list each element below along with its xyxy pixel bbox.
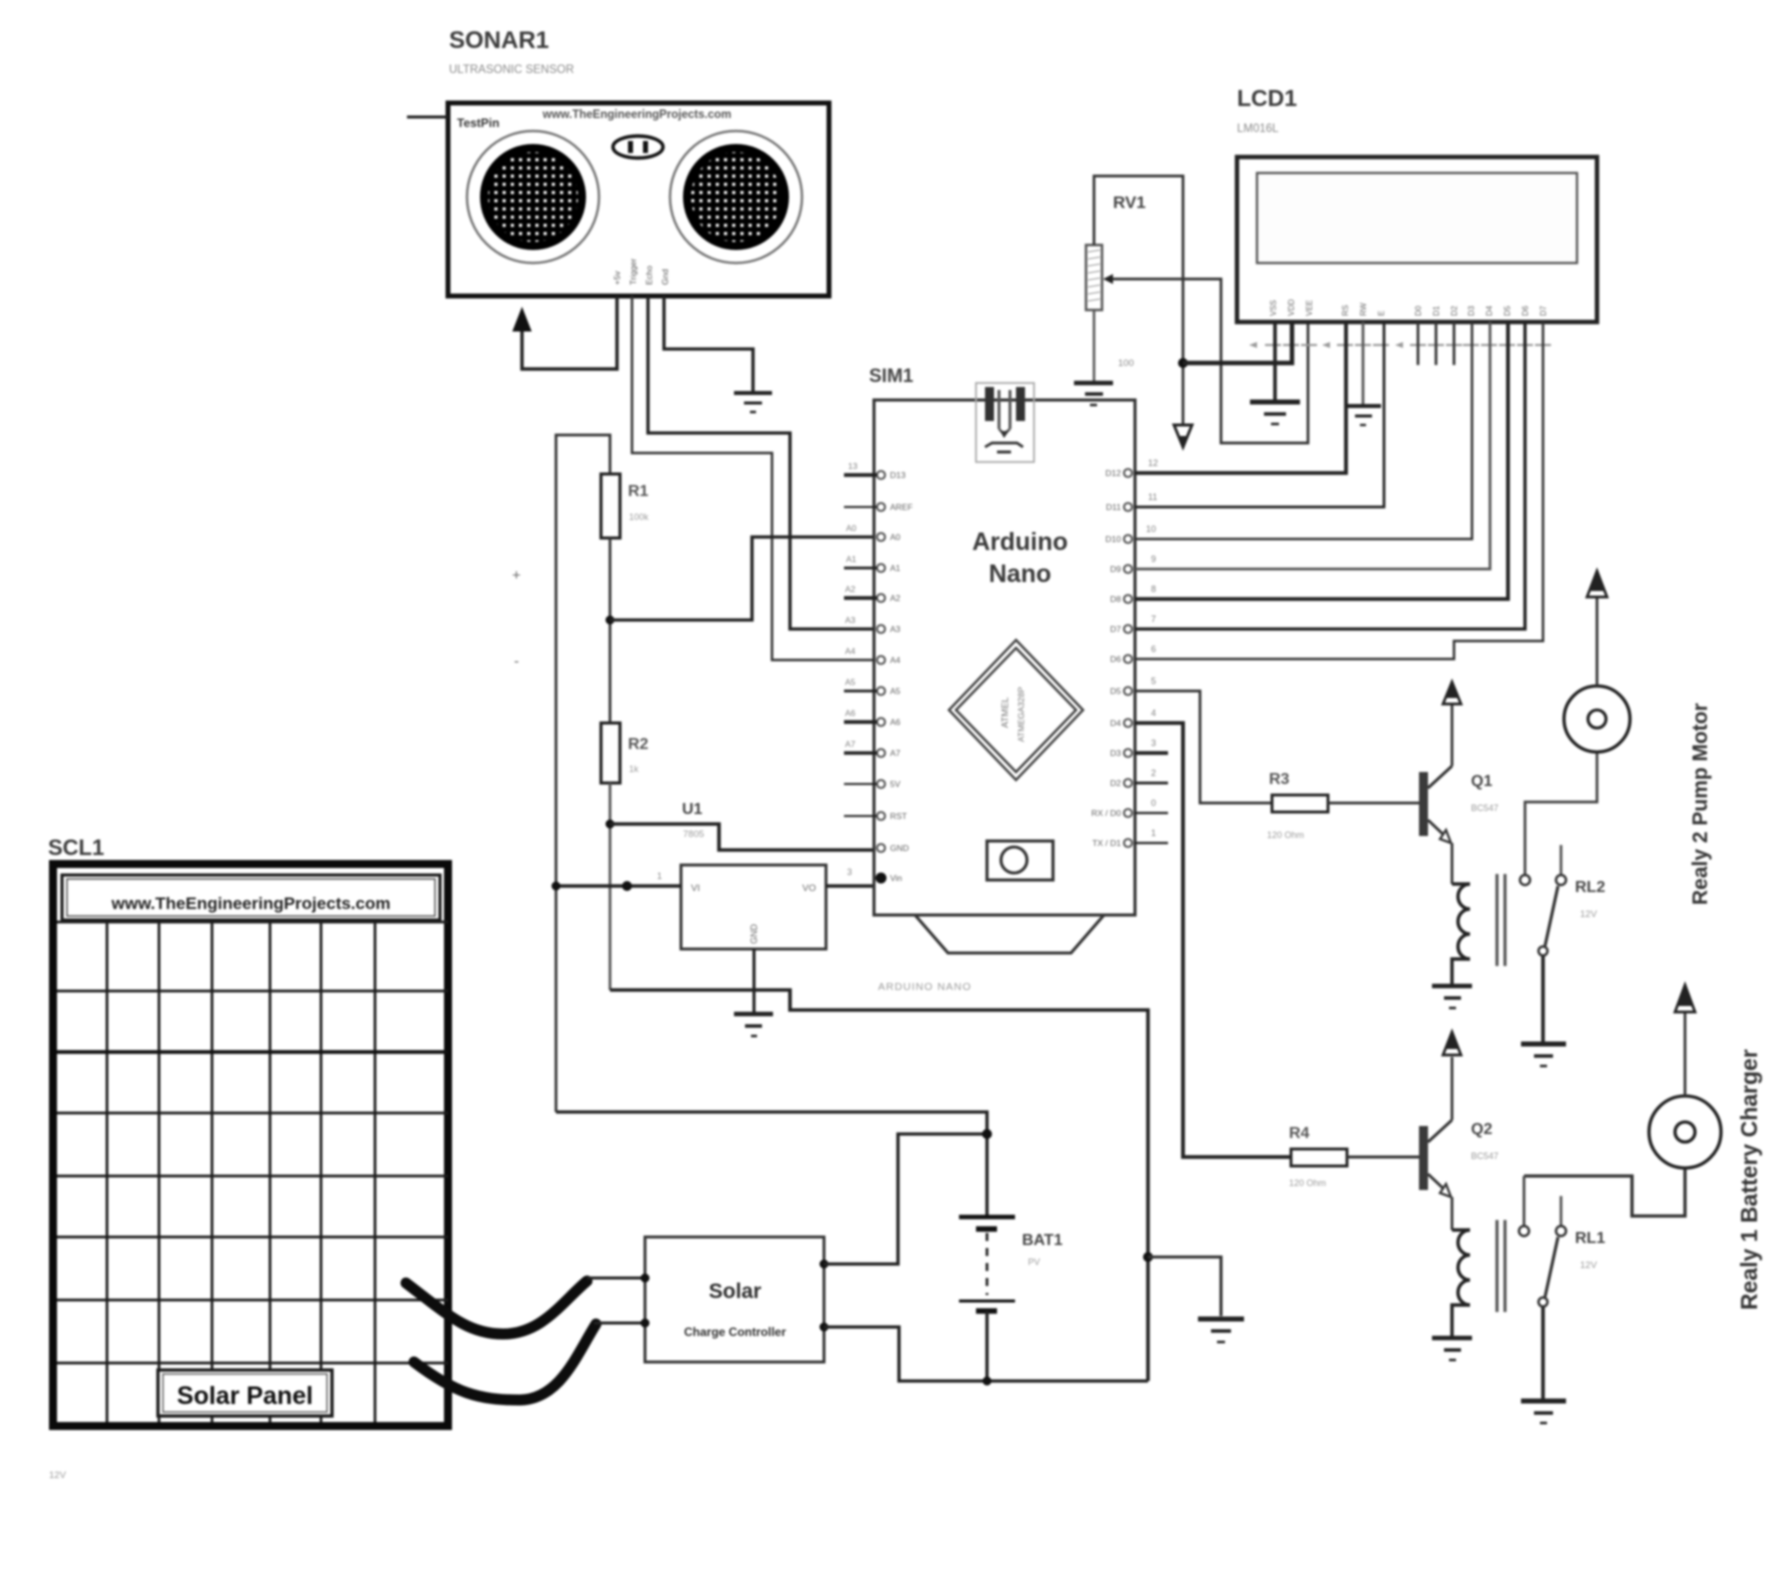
wire arduino D9 to LCD D4: [1135, 322, 1490, 569]
svg-text:A1: A1: [846, 554, 857, 564]
svg-text:8: 8: [1151, 584, 1156, 594]
node R2 bottom junction: [606, 820, 615, 829]
svg-text:Charge Controller: Charge Controller: [684, 1325, 786, 1339]
svg-text:BAT1: BAT1: [1022, 1232, 1063, 1249]
wire sonar Trigger to Arduino A4: [632, 296, 875, 660]
wire LCD D2 stub: [1453, 322, 1456, 365]
solar charge controller: [641, 1237, 829, 1362]
arduino right pin circles: [1124, 469, 1132, 847]
svg-text:Vin: Vin: [890, 873, 902, 883]
wire LCD D0 stub: [1417, 322, 1420, 365]
relay RL2 coil: [1452, 884, 1470, 984]
svg-text:Arduino: Arduino: [972, 528, 1068, 556]
wire junction to Arduino GND: [610, 824, 875, 850]
svg-text:1: 1: [657, 871, 662, 881]
relay RL1 coil: [1452, 1230, 1470, 1336]
svg-text:Gnd: Gnd: [660, 269, 670, 285]
wire GND net to bottom rail: [610, 990, 1148, 1381]
svg-text:U1: U1: [682, 801, 703, 818]
svg-text:D6: D6: [1521, 305, 1530, 316]
svg-text:A1: A1: [890, 563, 901, 573]
atmel atmega328p chip diamond: [949, 640, 1083, 780]
svg-text:D7: D7: [1110, 624, 1121, 634]
svg-text:Realy 2 Pump Motor: Realy 2 Pump Motor: [1689, 703, 1712, 905]
svg-text:D11: D11: [1106, 502, 1121, 512]
svg-text:D7: D7: [1539, 305, 1548, 316]
svg-text:A0: A0: [890, 532, 901, 542]
svg-text:Solar: Solar: [709, 1280, 762, 1303]
svg-text:2: 2: [1151, 768, 1156, 778]
svg-text:RV1: RV1: [1113, 193, 1146, 212]
wire arduino D5 to R3: [1135, 691, 1272, 803]
svg-text:3: 3: [1151, 738, 1156, 748]
svg-text:Realy 1 Battery Charger: Realy 1 Battery Charger: [1736, 1049, 1762, 1310]
svg-text:GND: GND: [890, 843, 909, 853]
regulator U1 7805: [681, 801, 826, 949]
svg-text:A7: A7: [845, 739, 856, 749]
svg-text:13: 13: [848, 461, 858, 471]
svg-text:ULTRASONIC SENSOR: ULTRASONIC SENSOR: [449, 64, 574, 76]
resistor R2: [601, 723, 649, 783]
svg-text:RW: RW: [1359, 302, 1368, 316]
wire LCD D1 stub: [1435, 322, 1438, 365]
power arrow (Q2 collector): [1443, 1032, 1461, 1055]
svg-text:3: 3: [847, 867, 852, 877]
svg-text:www.TheEngineeringProjects.com: www.TheEngineeringProjects.com: [542, 109, 732, 121]
wire R4 to Q2 base: [1347, 1155, 1420, 1158]
power down arrow (VDD net): [1174, 425, 1192, 447]
wire U1 VO to Arduino Vin: [826, 884, 875, 888]
svg-text:D3: D3: [1110, 748, 1121, 758]
svg-text:R2: R2: [628, 736, 649, 753]
svg-text:E: E: [1377, 311, 1386, 316]
wire Q2 collector to power arrow: [1451, 1057, 1454, 1120]
wire R2 bottom / GND net to Arduino GND pin: [609, 783, 612, 990]
svg-text:1: 1: [1151, 828, 1156, 838]
svg-text:VEE: VEE: [1305, 300, 1314, 316]
svg-text:+: +: [512, 567, 521, 584]
wire arduino D11 to LCD E: [1135, 322, 1384, 507]
svg-text:R4: R4: [1289, 1125, 1310, 1142]
svg-text:D6: D6: [1110, 654, 1121, 664]
svg-text:LM016L: LM016L: [1237, 123, 1279, 135]
transistor Q2 BC547: [1419, 1120, 1499, 1197]
arduino nano SIM1 body: [874, 400, 1135, 993]
svg-text:0: 0: [1151, 798, 1156, 808]
svg-text:R1: R1: [628, 483, 649, 500]
svg-text:www.TheEngineeringProjects.com: www.TheEngineeringProjects.com: [111, 894, 391, 913]
lcd LCD1 label: [1237, 85, 1297, 135]
arduino left pin stubs: [844, 475, 877, 816]
wire LCD VSS to ground: [1273, 322, 1277, 400]
svg-text:D1: D1: [1432, 305, 1441, 316]
arduino right unconnected stubs D3 D2 RX TX: [1135, 753, 1168, 843]
svg-text:BC547: BC547: [1471, 803, 1499, 813]
svg-text:A0: A0: [846, 523, 857, 533]
node + polarity marks: [512, 567, 521, 670]
wire +V rail to R1: [556, 435, 610, 1112]
node battery - junction: [983, 1377, 992, 1386]
ground (LCD RW): [1346, 406, 1381, 425]
svg-text:RX / D0: RX / D0: [1091, 808, 1121, 818]
svg-text:ATMEL: ATMEL: [1000, 697, 1011, 728]
svg-text:7: 7: [1151, 614, 1156, 624]
svg-text:D8: D8: [1110, 594, 1121, 604]
relay contact RL1: [1519, 1176, 1605, 1307]
svg-text:Q2: Q2: [1471, 1121, 1492, 1138]
svg-text:12V: 12V: [49, 1470, 67, 1481]
svg-text:D13: D13: [890, 470, 906, 480]
wire Q2 emitter to relay coil: [1451, 1197, 1454, 1230]
wire ground rail branch to ground: [1148, 1257, 1221, 1316]
svg-text:GND: GND: [749, 924, 759, 945]
svg-text:R3: R3: [1269, 771, 1290, 788]
svg-text:PV: PV: [1028, 1257, 1040, 1267]
lcd LM016L body: [1237, 157, 1597, 322]
ground (RL2 coil): [1432, 986, 1472, 1008]
wire thick cable panel to controller (top): [406, 1281, 587, 1334]
wire TestPin stub: [407, 116, 448, 119]
svg-text:12V: 12V: [1580, 1260, 1598, 1271]
svg-text:A2: A2: [890, 593, 901, 603]
wire sonar Gnd to ground: [664, 296, 753, 391]
ground (sonar): [734, 393, 772, 412]
arduino left stub labels: [845, 461, 858, 749]
wire motor M2 to power arrow: [1596, 598, 1599, 686]
svg-text:SONAR1: SONAR1: [449, 27, 549, 54]
svg-text:120 Ohm: 120 Ohm: [1289, 1178, 1326, 1188]
svg-text:D9: D9: [1110, 564, 1121, 574]
power arrow (M2): [1587, 571, 1607, 597]
svg-text:A7: A7: [890, 748, 901, 758]
svg-text:Trigger: Trigger: [628, 258, 638, 285]
wire RV1 top to VDD net: [1094, 176, 1183, 424]
power arrow (M1): [1675, 985, 1695, 1012]
svg-text:Q1: Q1: [1471, 773, 1492, 790]
svg-text:VO: VO: [802, 883, 816, 894]
svg-text:5V: 5V: [890, 779, 901, 789]
svg-text:RL2: RL2: [1575, 879, 1605, 896]
node R1/R2 junction: [606, 616, 615, 625]
wire arduino D6 to LCD D7: [1135, 322, 1543, 659]
ground (RV1): [1074, 383, 1113, 405]
wire R3 to Q1 base: [1328, 802, 1420, 805]
svg-text:LCD1: LCD1: [1237, 85, 1297, 111]
solar panel SCL1: [53, 864, 448, 1426]
wire sonar Echo to Arduino A3: [648, 296, 875, 629]
wire cable to controller top-left pin: [587, 1276, 645, 1279]
wire R1 to R2 with A0 branch: [609, 538, 612, 723]
wire RV1 wiper to LCD VEE: [1113, 279, 1308, 443]
wire controller out- to ground rail: [824, 1327, 1148, 1381]
wire LCD VDD to +5V net: [1183, 322, 1292, 363]
svg-text:SIM1: SIM1: [869, 366, 914, 387]
wire thick cable panel to controller (bottom): [414, 1324, 596, 1400]
svg-text:D3: D3: [1467, 305, 1476, 316]
svg-text:Nano: Nano: [989, 560, 1052, 588]
ground (RL2 contact): [1521, 1044, 1566, 1066]
motor M2 pump: [1564, 686, 1630, 752]
ground (U1): [734, 1014, 773, 1036]
wire Q1 emitter to relay coil: [1451, 843, 1454, 884]
svg-text:D4: D4: [1485, 305, 1494, 316]
svg-text:AREF: AREF: [890, 502, 913, 512]
svg-text:+5v: +5v: [612, 270, 622, 285]
wire arduino D4 to R4: [1135, 723, 1291, 1157]
svg-text:4: 4: [1151, 708, 1156, 718]
svg-text:6: 6: [1151, 644, 1156, 654]
wire motor M1 to power arrow: [1684, 1013, 1687, 1096]
wire RL2 arm to ground: [1541, 956, 1545, 1042]
svg-text:ARDUINO NANO: ARDUINO NANO: [878, 981, 972, 993]
svg-text:D12: D12: [1105, 468, 1121, 478]
svg-text:D0: D0: [1414, 305, 1423, 316]
wire arduino D10 to LCD D3: [1135, 322, 1472, 539]
svg-text:1k: 1k: [629, 764, 639, 774]
lcd pin number ticks: [1265, 344, 1551, 346]
svg-text:D4: D4: [1110, 718, 1121, 728]
transistor Q1 BC547: [1419, 766, 1499, 843]
svg-text:RL1: RL1: [1575, 1230, 1605, 1247]
svg-text:VI: VI: [691, 883, 700, 894]
node ground rail junction: [1143, 1252, 1153, 1262]
svg-text:D2: D2: [1450, 305, 1459, 316]
usb connector (arduino): [976, 383, 1034, 462]
svg-text:-: -: [514, 653, 519, 670]
svg-text:RST: RST: [890, 811, 907, 821]
resistor R4: [1289, 1125, 1347, 1188]
ground (RL1 coil): [1432, 1338, 1472, 1360]
arduino left pin names: [890, 470, 913, 883]
svg-text:12V: 12V: [1580, 909, 1598, 920]
svg-text:A3: A3: [890, 624, 901, 634]
svg-text:9: 9: [1151, 554, 1156, 564]
svg-text:D5: D5: [1503, 305, 1512, 316]
svg-text:120 Ohm: 120 Ohm: [1267, 830, 1304, 840]
wire RL2 contact to motor: [1525, 752, 1597, 875]
svg-text:SCL1: SCL1: [48, 835, 104, 860]
wire LCD RW to ground: [1362, 322, 1365, 405]
svg-text:A4: A4: [845, 646, 856, 656]
svg-text:TestPin: TestPin: [457, 116, 499, 130]
wire arduino D8 to LCD D5: [1135, 322, 1508, 599]
sonar SONAR1 label: [449, 27, 574, 76]
svg-text:D10: D10: [1105, 534, 1121, 544]
node Vin pin dot: [876, 873, 887, 884]
wire rail to U1 VI: [556, 884, 681, 888]
relay RL1 core: [1497, 1220, 1505, 1312]
wire Q1 collector to power arrow: [1451, 704, 1454, 766]
wire junction to Arduino A0: [610, 537, 875, 620]
power arrow (Q1 collector): [1443, 682, 1461, 704]
svg-text:Echo: Echo: [644, 265, 654, 285]
arduino left pin circles: [877, 471, 885, 852]
ultrasonic sensor SONAR1 body: [448, 103, 829, 296]
node VDD junction: [1178, 358, 1188, 368]
resistor R1: [601, 474, 649, 538]
svg-text:7805: 7805: [683, 829, 704, 840]
svg-text:VSS: VSS: [1269, 300, 1278, 316]
potentiometer RV1: [1086, 193, 1146, 369]
svg-text:TX / D1: TX / D1: [1092, 838, 1121, 848]
svg-text:100: 100: [1118, 358, 1134, 369]
node battery + junction: [982, 1129, 992, 1139]
ground (battery rail): [1198, 1319, 1244, 1342]
sonar pin labels (+5v Trigger Echo Gnd): [612, 258, 670, 285]
svg-text:10: 10: [1146, 524, 1156, 534]
wire arduino D7 to LCD D6: [1135, 322, 1525, 629]
svg-text:ATMEGA328P: ATMEGA328P: [1016, 687, 1026, 742]
svg-text:A4: A4: [890, 655, 901, 665]
svg-text:BC547: BC547: [1471, 1151, 1499, 1161]
svg-text:Solar Panel: Solar Panel: [177, 1382, 313, 1410]
svg-text:11: 11: [1148, 492, 1157, 502]
power arrow +5V (sonar): [513, 308, 531, 331]
relay RL2 core: [1497, 874, 1505, 966]
wire +V rail bottom to battery +: [556, 1112, 987, 1216]
wire sonar +5v to power arrow: [522, 296, 617, 369]
svg-text:100k: 100k: [629, 512, 649, 522]
ground (RL1 contact): [1521, 1401, 1566, 1423]
crystal oscillator (arduino): [987, 841, 1053, 880]
svg-text:12: 12: [1148, 458, 1158, 468]
wire RV1 bottom to ground: [1093, 310, 1096, 381]
svg-text:A6: A6: [845, 708, 856, 718]
relay contact RL2: [1520, 845, 1605, 956]
wire cable to controller bottom-left pin: [594, 1321, 645, 1324]
svg-text:D2: D2: [1110, 778, 1121, 788]
wire controller out+ to battery +: [824, 1134, 987, 1264]
svg-text:RS: RS: [1341, 305, 1350, 316]
motor M1 battery charger: [1649, 1096, 1721, 1168]
arduino right pin numbers: [1146, 458, 1158, 838]
svg-text:A3: A3: [845, 615, 856, 625]
svg-text:D5: D5: [1110, 686, 1121, 696]
battery BAT1: [959, 1217, 1063, 1311]
svg-text:A5: A5: [845, 677, 856, 687]
arduino right pin names: [1091, 468, 1121, 848]
node rail/VI junction: [552, 882, 561, 891]
wire RL1 arm to ground: [1541, 1307, 1545, 1399]
svg-text:A2: A2: [845, 584, 856, 594]
wire battery - lead: [985, 1311, 988, 1381]
wire U1 GND lead: [752, 949, 755, 1012]
wire RL1 contact to motor M1: [1524, 1168, 1685, 1216]
resistor R3: [1267, 771, 1328, 840]
svg-text:VDD: VDD: [1287, 299, 1296, 316]
lcd pin labels: [1269, 299, 1548, 316]
node VI wire junction: [622, 881, 632, 891]
ground (LCD VSS): [1250, 402, 1300, 424]
svg-text:A6: A6: [890, 717, 901, 727]
svg-text:A5: A5: [890, 686, 901, 696]
wire arduino D12 to LCD RS: [1135, 322, 1346, 473]
svg-text:5: 5: [1151, 676, 1156, 686]
